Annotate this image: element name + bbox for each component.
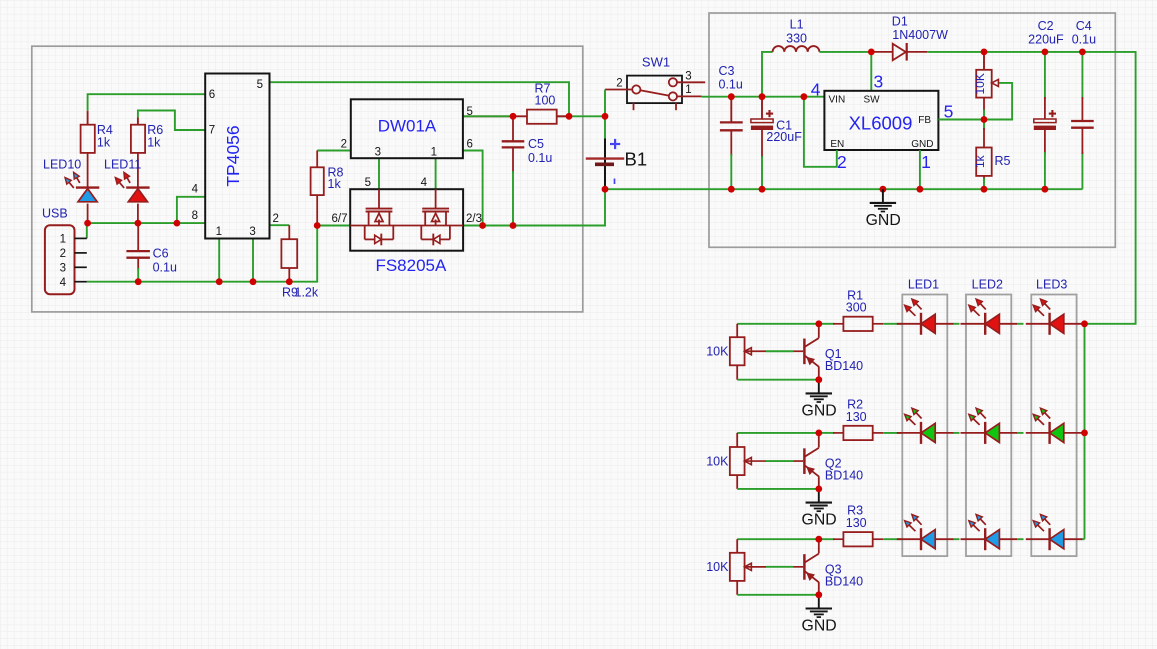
- svg-text:10K: 10K: [706, 345, 729, 359]
- svg-text:LED1: LED1: [908, 277, 939, 291]
- svg-text:300: 300: [846, 301, 867, 315]
- svg-text:1.2k: 1.2k: [295, 286, 319, 300]
- wire LED row Q2: [883, 432, 901, 434]
- junction dots row Q2: [815, 430, 822, 437]
- svg-text:1N4007W: 1N4007W: [892, 28, 948, 42]
- svg-text:6: 6: [467, 139, 473, 151]
- wire LED row Q1: [883, 323, 901, 325]
- FS8205A internal channel wire: [350, 225, 463, 227]
- resistor R3 130: [819, 538, 835, 540]
- svg-text:B1: B1: [625, 149, 648, 170]
- capacitor C6 0.1u: [137, 225, 139, 251]
- ground GND Q2: [818, 489, 820, 503]
- capacitor C3 0.1u: [730, 97, 732, 123]
- switch SW1: [627, 76, 682, 104]
- svg-text:3: 3: [60, 263, 66, 275]
- wire TP4056 pin1 down: [218, 239, 220, 282]
- wire 6/7 net: [317, 225, 350, 227]
- junction dots row Q1: [815, 320, 822, 327]
- resistor R2 130: [819, 432, 835, 434]
- wire GND pin1 down: [919, 150, 921, 189]
- wire R7 to SW/B1 node: [557, 115, 605, 117]
- wire USB pin4 to bottom rail: [87, 226, 317, 282]
- wire TP4056 pin7 to R6: [138, 111, 205, 131]
- potentiometer 10K Q2: [736, 433, 738, 447]
- svg-text:7: 7: [209, 125, 215, 137]
- LED r2c2: [961, 432, 1018, 434]
- svg-text:C2: C2: [1038, 19, 1054, 33]
- svg-text:FB: FB: [918, 115, 931, 126]
- wire TP4056 pin6 to R4: [88, 94, 206, 111]
- svg-text:5: 5: [257, 79, 263, 91]
- svg-text:5: 5: [365, 177, 371, 189]
- svg-text:6: 6: [209, 89, 215, 101]
- capacitor C2 220uF polarized: [1044, 52, 1046, 99]
- LED r2c1: [897, 432, 954, 434]
- svg-text:BD140: BD140: [825, 359, 863, 373]
- LED r1c1: [897, 323, 954, 325]
- transistor Q1 BD140: [803, 339, 806, 365]
- svg-text:2: 2: [837, 152, 847, 172]
- svg-text:2: 2: [273, 213, 279, 225]
- wire LED row Q3: [883, 538, 901, 540]
- svg-text:1k: 1k: [97, 135, 111, 149]
- svg-text:C5: C5: [528, 137, 544, 151]
- wire 2/3 net to B1 minus: [463, 189, 605, 225]
- svg-text:5: 5: [944, 102, 954, 122]
- potentiometer 10K Q1: [736, 324, 738, 337]
- svg-text:10K: 10K: [706, 560, 729, 574]
- wire L1 to D1 node: [819, 51, 871, 53]
- LED r1c2: [961, 323, 1018, 325]
- inductor L1 330: [773, 46, 820, 52]
- wire base row Q3: [737, 538, 819, 540]
- svg-text:4: 4: [60, 277, 67, 289]
- svg-text:10K: 10K: [706, 454, 729, 468]
- svg-text:1: 1: [216, 226, 222, 238]
- svg-text:LED2: LED2: [972, 277, 1003, 291]
- svg-text:SW: SW: [864, 95, 881, 106]
- svg-text:C3: C3: [719, 64, 735, 78]
- resistor R5 1k: [983, 120, 985, 130]
- svg-text:5: 5: [467, 106, 473, 118]
- wire DW01A pin2 to R8: [317, 150, 351, 152]
- svg-text:1: 1: [921, 152, 931, 172]
- svg-text:130: 130: [846, 516, 867, 530]
- wire pot bottom Q3: [737, 594, 819, 596]
- LED LED10: [76, 186, 99, 188]
- wire output top: [927, 52, 1135, 324]
- op-amp U2 DW01A: [351, 99, 463, 158]
- connector USB: [45, 225, 75, 294]
- frame charger block: [32, 46, 583, 312]
- svg-text:220uF: 220uF: [1028, 32, 1064, 46]
- LED r1c3: [1026, 323, 1083, 325]
- ground GND Q3: [818, 595, 820, 609]
- svg-text:XL6009: XL6009: [849, 113, 913, 134]
- svg-text:FS8205A: FS8205A: [375, 256, 447, 275]
- LED r2c3: [1026, 432, 1083, 434]
- FS8205A mosfet B: [435, 189, 437, 208]
- wire DW01A pin6 to 2/3 node: [463, 151, 483, 226]
- wire B1 plus: [604, 116, 606, 139]
- wire pot bottom Q1: [737, 379, 819, 381]
- svg-text:2: 2: [616, 78, 622, 90]
- wire wiper to base Q2: [744, 460, 766, 462]
- wire EN loop: [804, 97, 837, 167]
- wire DW01A pin3 down: [378, 158, 380, 189]
- junction dots left block: [84, 220, 91, 227]
- svg-text:1: 1: [431, 147, 437, 159]
- svg-text:4: 4: [811, 80, 821, 100]
- wire TP4056 pin4 branch: [177, 197, 205, 223]
- svg-text:2/3: 2/3: [466, 213, 482, 225]
- diode D1 1N4007W: [871, 51, 892, 53]
- svg-text:DW01A: DW01A: [378, 117, 437, 136]
- svg-text:2: 2: [341, 139, 347, 151]
- resistor R1 300: [819, 323, 835, 325]
- wire base row Q2: [737, 432, 819, 434]
- wire C4 bottom corner: [1081, 152, 1083, 189]
- svg-text:1k: 1k: [328, 177, 342, 191]
- gray box LED column 1: [902, 295, 947, 557]
- svg-text:3: 3: [249, 226, 255, 238]
- wire wiper loop: [984, 83, 1012, 120]
- svg-text:220uF: 220uF: [766, 130, 802, 144]
- svg-text:LED3: LED3: [1036, 277, 1067, 291]
- svg-text:SW1: SW1: [642, 55, 670, 70]
- resistor R8 1k: [316, 151, 318, 168]
- svg-text:C4: C4: [1076, 19, 1092, 33]
- svg-text:8: 8: [192, 210, 198, 222]
- junction dots right block: [728, 93, 735, 100]
- wire L1 branch: [762, 52, 773, 97]
- wire VCC rail y223: [87, 222, 205, 224]
- svg-text:R5: R5: [995, 154, 1011, 168]
- ground GND right block: [880, 186, 887, 193]
- frame boost converter block: [709, 13, 1115, 247]
- wire LED column feed: [1084, 324, 1086, 539]
- svg-text:LED10: LED10: [43, 157, 81, 171]
- svg-text:BD140: BD140: [825, 574, 863, 588]
- wire pot bottom Q2: [737, 488, 819, 490]
- wire USB pin1 riser: [86, 223, 88, 238]
- svg-text:6/7: 6/7: [332, 213, 348, 225]
- LED LED11: [126, 186, 149, 188]
- wire DW01A pin5 to R7: [463, 115, 527, 117]
- svg-text:VIN: VIN: [829, 95, 846, 106]
- svg-text:C6: C6: [153, 246, 169, 260]
- wire TP4056 pin5 to R7 node: [270, 82, 570, 116]
- svg-text:GND: GND: [802, 403, 837, 420]
- svg-text:10K: 10K: [973, 73, 987, 94]
- resistor R6 1k: [137, 118, 139, 125]
- svg-text:1k: 1k: [973, 154, 987, 168]
- junction dots row Q3: [815, 536, 822, 543]
- svg-text:0.1u: 0.1u: [153, 260, 177, 274]
- svg-text:LED11: LED11: [104, 157, 141, 171]
- resistor R4 1k: [87, 111, 89, 125]
- capacitor C1 220uF polarized: [761, 97, 763, 119]
- potentiometer 10K Q3: [736, 539, 738, 553]
- svg-text:USB: USB: [42, 207, 68, 221]
- wire wiper to base Q1: [744, 350, 766, 352]
- capacitor C5 0.1u: [512, 116, 514, 141]
- transistor Q3 BD140: [803, 554, 806, 580]
- svg-text:L1: L1: [790, 18, 804, 32]
- battery B1: [604, 139, 606, 190]
- svg-text:D1: D1: [892, 15, 908, 29]
- svg-text:3: 3: [375, 147, 381, 159]
- potentiometer 10K boost: [983, 52, 985, 70]
- resistor R9 1.2k: [288, 225, 290, 239]
- svg-text:0.1u: 0.1u: [719, 78, 743, 92]
- transistor U3 FS8205A: [350, 189, 463, 251]
- transistor Q2 BD140: [803, 448, 806, 474]
- svg-text:1: 1: [60, 234, 66, 246]
- wire SW1 pin1 to VIN: [702, 96, 825, 98]
- LED r3c1: [897, 538, 954, 540]
- resistor R7 100: [527, 110, 557, 124]
- svg-text:3: 3: [685, 70, 691, 82]
- wire TP4056 pin3 down: [252, 239, 254, 282]
- svg-text:3: 3: [874, 71, 884, 91]
- wire SW pin3 riser: [870, 52, 872, 91]
- svg-text:GND: GND: [802, 618, 837, 635]
- gray box LED column 3: [1031, 295, 1076, 557]
- wire TP4056 pin2 to R9: [270, 224, 290, 226]
- svg-text:GND: GND: [802, 512, 837, 529]
- svg-text:EN: EN: [830, 139, 844, 150]
- svg-text:GND: GND: [911, 139, 933, 150]
- ground GND Q1: [818, 380, 820, 394]
- wire wiper to base Q3: [744, 566, 766, 568]
- svg-text:4: 4: [192, 184, 199, 196]
- wire FB to divider: [938, 119, 984, 121]
- svg-text:130: 130: [846, 410, 867, 424]
- gray box LED column 2: [966, 295, 1011, 557]
- op-amp U1 TP4056: [205, 74, 269, 239]
- svg-text:330: 330: [786, 31, 807, 45]
- op-amp U4 XL6009: [824, 91, 938, 150]
- svg-text:1k: 1k: [147, 135, 161, 149]
- wire SW1 pin2 to node: [604, 90, 606, 117]
- wire GND rail right block: [605, 188, 1082, 190]
- svg-text:100: 100: [535, 93, 556, 107]
- svg-text:1: 1: [685, 84, 691, 96]
- svg-text:TP4056: TP4056: [223, 125, 243, 186]
- svg-text:0.1u: 0.1u: [528, 151, 552, 165]
- svg-text:BD140: BD140: [825, 469, 863, 483]
- svg-text:GND: GND: [866, 212, 901, 229]
- LED r3c2: [961, 538, 1018, 540]
- LED r3c3: [1026, 538, 1083, 540]
- wire DW01A pin1 down: [435, 158, 437, 189]
- wire base row Q1: [737, 323, 819, 325]
- FS8205A mosfet A: [378, 189, 380, 208]
- svg-text:4: 4: [421, 177, 428, 189]
- svg-text:2: 2: [60, 248, 66, 260]
- svg-text:0.1u: 0.1u: [1072, 32, 1096, 46]
- capacitor C4 0.1u output: [1081, 52, 1083, 99]
